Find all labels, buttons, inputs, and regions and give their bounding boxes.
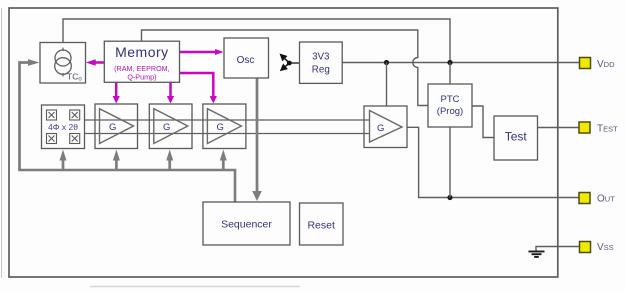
amp4 G (output driver) [364,106,407,148]
PTC programming block [428,84,472,127]
svg-text:VDD: VDD [597,59,615,70]
wire: differential signal line upper (hall to amp chain) [85,119,370,121]
magenta wire: memory to osc (right arrow) [180,49,224,55]
wire: amp4 output to OUT pin [407,127,580,197]
pin TEST [579,122,618,135]
wire: VDD rail down to PTC top [449,63,451,85]
svg-text:Q-Pump): Q-Pump) [127,73,156,82]
svg-text:TEST: TEST [597,124,618,135]
wire: VDD rail down to amp4 top [386,63,388,107]
magenta wire: memory bottom down into amp1 [113,82,120,104]
svg-text:Test: Test [505,130,528,144]
svg-text:VSS: VSS [597,242,614,253]
sequencer block [203,202,290,245]
amp1 G [95,104,138,149]
junction node on OUT net below PTC [447,195,452,200]
test block [494,116,538,160]
osc block [224,38,269,78]
svg-text:4Φ x 2θ: 4Φ x 2θ [48,122,78,132]
wire: Test right to TEST pin [538,127,581,129]
3V3 regulator block [300,42,343,83]
gray control bus: left rail with arrow into TC [20,59,40,170]
svg-text:3V3: 3V3 [312,52,330,63]
magenta wire: memory to TC (left arrow) [86,59,105,66]
magenta wire: memory right, down into amp3 [180,73,217,104]
hall plate block 4phi x 2theta [42,105,85,149]
photo edge artifact bottom [90,286,300,288]
svg-text:Sequencer: Sequencer [221,219,272,231]
svg-text:G: G [163,122,170,133]
clock fork symbol [280,54,300,72]
svg-text:Reg: Reg [312,65,330,76]
reset block [300,203,344,245]
pin VDD [580,58,616,71]
svg-text:Osc: Osc [237,55,255,66]
TC block (temperature compensated current source) [40,43,86,84]
wire: PTC right to Test left [472,106,494,138]
wire: TC top up and over to VDD rail [63,19,450,63]
wire: VSS pin to ground [536,247,580,252]
svg-text:G: G [377,123,384,134]
wire: PTC bottom down to OUT net [449,127,451,198]
gray control bus: bottom rail from sequencer [18,170,235,202]
svg-text:OUT: OUT [597,194,615,205]
wire: differential signal line lower (hall to amp chain) [85,133,370,135]
wire: VDD rail from 3V3 Reg to VDD pin [342,62,580,64]
gray bus arrow up into hall plates [60,150,67,172]
amp3 G [203,104,246,149]
junction node on VDD rail above amp4 [384,60,389,65]
gray bus arrow up into amp3 [220,150,227,172]
gray clock line: osc down into sequencer with arrow [252,78,262,202]
memory block [104,41,179,82]
wire: Memory top to PTC left with hop over VDD rail [142,30,429,106]
svg-text:Memory: Memory [115,44,169,60]
ground symbol [529,252,545,257]
svg-text:PTC: PTC [441,94,460,105]
photo edge artifact left [1,8,3,278]
svg-text:(Prog): (Prog) [437,106,463,117]
junction node on VDD rail above PTC [447,60,452,65]
svg-text:Reset: Reset [307,220,335,232]
magenta wire: memory bottom down into amp2 [167,82,174,104]
amp2 G [149,104,192,149]
pin VSS [580,242,614,254]
gray bus arrow up into amp1 [113,150,120,172]
pin OUT [579,193,615,205]
svg-text:G: G [217,122,224,133]
svg-text:G: G [109,122,116,133]
gray bus arrow up into amp2 [166,150,173,172]
